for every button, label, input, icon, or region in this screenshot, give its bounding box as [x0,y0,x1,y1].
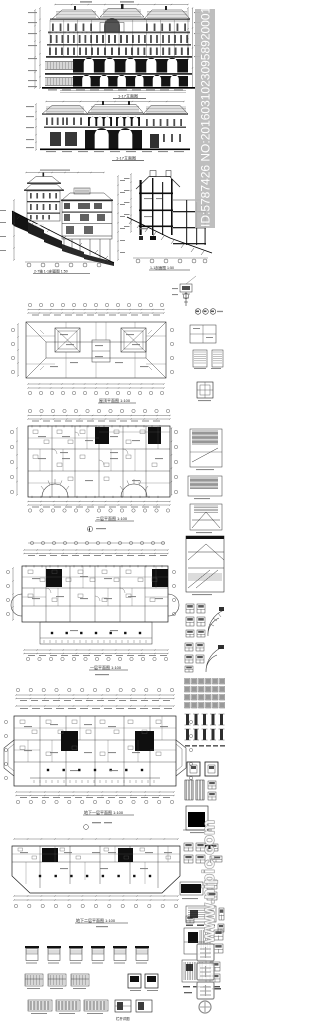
second floor plan: door arcs [52,432,128,465]
stair detail 3 [190,504,222,530]
section 2-2: footing blocks [150,236,156,240]
svg-text:ID:5787426 NO:2016031023095892: ID:5787426 NO:20160310230958920001 [199,6,213,227]
basement-2 plan: dark core right [118,848,133,862]
front elevation: left terrace railing lower [46,78,73,85]
first floor plan: scale mark [95,674,109,675]
molding details cluster B [185,643,193,651]
second floor plan: stair core right (dark) [148,427,161,444]
section 2-2 view: left dimension column [130,174,132,232]
detail row 3: railing strips [28,1000,52,1011]
svg-text:屋顶平面图 1:100: 屋顶平面图 1:100 [99,397,131,403]
front elevation: bottom dimension texts [48,89,57,90]
basement-2 plan: bottom dimension rows [14,895,178,897]
svg-text:1-17立面图: 1-17立面图 [116,155,136,161]
dome arc detail A [208,610,224,636]
front elevation: left dimension column [39,8,41,88]
second floor plan view: top grid bubbles [28,409,31,412]
roof plan: bottom grid bubbles [28,391,31,394]
second floor plan: interior walls [28,426,170,497]
two square details [187,762,200,776]
first floor plan: room annotation blobs [32,578,40,579]
second floor plan: stair core left (dark) [95,427,109,444]
first floor plan: terrace colonnade [40,622,152,644]
section 2-2: bottom grid bubbles [133,257,208,259]
basement-1 plan: bottom grid bubbles [16,800,19,803]
roof plan: left grid bubbles [11,328,14,331]
rear elevation: eaves band [42,114,188,115]
first floor plan: small furniture rects [28,570,33,574]
basement-1 plan: left octagonal bay [4,740,14,776]
basement-1 plan: secondary wall lines [14,716,176,762]
svg-text:1-1剖面图 1:50: 1-1剖面图 1:50 [150,265,174,270]
section 2-2: cut walls [140,180,142,235]
section 1-1: slope hatch label [34,224,44,225]
first floor plan: bottom grid bubbles [26,657,29,660]
tiny glyph rows (right column) [185,679,190,684]
basement-1 plan: outer walls [14,716,176,786]
detail label circles 1 2 3 [195,309,201,315]
section 1-1: right building body [62,201,112,239]
front elevation: third window row [49,48,51,56]
basement-1 plan: interior walls [14,716,176,786]
front elevation: floor band 3 [46,56,192,58]
first floor plan: bottom dimension rows [24,649,168,651]
roof plan: hip and ridge lines [26,322,166,378]
basement-1 plan: room blobs [24,726,32,727]
stair section detail (large, right column) [186,536,224,592]
svg-text:2-7轴 1-1剖面图 1:50: 2-7轴 1-1剖面图 1:50 [34,269,68,274]
rear elevation: roofs [42,106,88,115]
dark window detail [186,806,208,830]
front elevation view: top dimension line [55,4,188,6]
watermark: nipic chinese logo glyphs [197,944,214,961]
second floor plan: outer walls [28,426,170,497]
bottom-right details cluster 3 [186,906,216,922]
roof plan: annotation blobs [60,334,68,335]
detail row 2: railing fragments [25,974,43,986]
basement-1 plan: bottom dimension rows [16,791,174,793]
roof plan view: top grid bubbles [28,303,31,306]
grid bubble strip above first floor plan [28,542,165,544]
second floor plan: secondary wall lines [28,426,170,483]
second floor plan: left grid bubbles [10,430,13,433]
section 2-2: floor slabs [139,193,173,195]
first floor plan: interior walls [22,566,168,622]
basement-1 plan view: top grid bubbles [16,688,19,691]
detail row 2: dark square details [128,974,141,988]
basement-2 plan: interior walls [12,846,180,888]
section 1-1: right dimension column [117,176,119,260]
front elevation: second window row [50,35,52,43]
bottom-right filler glyphs row [186,916,194,923]
svg-text:1-17立面图: 1-17立面图 [118,93,138,99]
roof plan: top dimension rows [28,309,164,311]
roof plan: right roof well [121,328,146,352]
roof plan: valley and extra lines [26,322,166,378]
basement-2 plan: dark core left [42,848,58,862]
ornament leader line [186,276,196,284]
rear elevation: ground line [40,149,190,151]
front elevation: lower arcade (dark) [73,75,188,87]
stair detail 2 [188,476,222,496]
front elevation: roof finial and chimneys [121,4,124,9]
rear elevation: floor band [44,127,186,129]
watermark: nipic round logo [199,1001,211,1013]
second floor plan: room annotation blobs [38,436,46,437]
basement-2 plan: room blobs [20,852,28,853]
section 1-1: foundation stilts [64,239,110,261]
section 1-1: left tower body [27,191,60,221]
second floor plan: right grid bubbles [174,430,177,433]
dome arc detail B [206,647,223,672]
svg-text:二层平面图 1:100: 二层平面图 1:100 [96,515,128,521]
square detail [197,382,213,398]
roof plan: right small plan detail [190,325,216,343]
section 2-2: sloped ground line with hatch [127,217,212,253]
svg-text:地下二层平面图 1:100: 地下二层平面图 1:100 [76,917,116,923]
svg-text:一层平面图 1:100: 一层平面图 1:100 [90,664,122,670]
column detail rows [186,714,189,725]
first floor plan view: top dimension rows [24,549,168,551]
front elevation: ground line [42,87,195,89]
roof plan: center block [92,340,110,362]
front elevation: balcony band [48,32,190,34]
first floor plan: window ticks [26,565,162,567]
svg-text:www.nipic.com: www.nipic.com [199,820,218,944]
rear elevation view: top dimension line [46,101,184,103]
bottom-right details cluster 1 [184,843,193,851]
basement-1 plan: colonnade terrace [47,769,49,771]
basement-1 plan: legend marks [92,822,101,823]
roof plan: left roof well [55,328,80,352]
first floor plan: left grid bubbles [6,570,9,573]
roof plan: bottom dimension rows [28,383,164,385]
front elevation: floor band 2 [47,44,191,46]
bottom-right filler marks [186,925,193,927]
front elevation: right dimension column [187,8,189,60]
bottom-right details cluster 4 [184,928,210,954]
small marks row [185,745,190,747]
section 2-2: room labels [144,198,152,199]
front elevation: underground lines [60,90,186,92]
bottom-right details cluster 5 [182,960,206,982]
basement-2 plan view: top dimension row [14,838,178,840]
front elevation: pilasters [50,20,174,56]
second floor plan: bottom dimension rows [28,501,170,503]
rear elevation: upper windows [46,118,48,126]
first floor plan: stair core left (dark) [46,569,62,587]
stair detail 1 (right column) [190,429,222,467]
molding details cluster A [186,604,194,613]
section 1-1: right building roof [62,193,112,200]
front elevation: floor band 4 [45,73,192,75]
rear elevation: left dimension column [35,104,37,150]
second floor plan: north symbol [87,526,92,531]
section 1-1 view: top dimension row [26,172,104,174]
roof plan: right grid bubbles [170,328,173,331]
first floor plan: secondary wall lines [22,566,168,606]
detail row 3: small blocks [115,1000,131,1012]
watermark: grey ID strip (top right) [195,9,215,228]
front elevation: eaves band [50,19,190,20]
section 2-2: right annex walls and floors [173,199,205,201]
ornament finial detail [180,284,192,292]
first floor plan: door arcs [46,588,125,601]
first floor plan: left bay [11,594,22,616]
basement-1 plan: stair core right (dark) [135,731,154,751]
window detail pair [193,350,207,367]
svg-text:地下一层平面图 1:100: 地下一层平面图 1:100 [84,809,124,815]
first floor plan: right grid bubbles [172,570,175,573]
first floor plan: right bay [168,594,179,616]
front elevation: left terrace railing upper [46,62,73,69]
basement-1 plan: left grid bubbles [4,720,7,723]
section 1-1: sloped ground with dark fill [12,211,28,232]
second floor plan: right round bay [121,484,147,497]
basement-1 plan: right octagonal bay [176,740,186,776]
basement-2 plan: bottom grid bubbles [14,904,17,907]
section 1-1: left tower roof [28,177,60,184]
first floor plan: outer walls [22,566,168,622]
section 1-1: bottom grid bubbles [25,261,105,263]
section 1-1: left dimension ticks [13,200,15,260]
rear elevation: bottom dimension texts [46,151,56,152]
svg-text:栏杆详图: 栏杆详图 [116,1016,130,1021]
basement-1 plan: right grid bubbles [189,720,192,723]
second floor plan: window ticks on walls [32,425,160,427]
second floor plan: bottom grid bubbles [28,509,31,512]
rear elevation: lower level dark mass with arches [85,128,142,148]
basement-2 plan: outer walls [12,846,180,893]
section 2-2: roof outline [136,177,180,190]
striped column details [185,780,193,800]
detail row 1: small elevation fragments [25,946,39,948]
second floor plan: small furniture rects [33,430,38,434]
basement-2 plan: secondary lines [12,846,180,884]
bottom-right details cluster 2: dark bar [181,884,201,893]
front elevation: upper arch arcade (dark) [73,58,188,73]
first floor plan: stair core right (dark) [152,569,168,587]
second floor plan: left round bay [42,484,68,497]
basement-1 plan: small furniture rects [20,720,25,724]
basement-2 plan: colonnade [39,875,41,877]
front elevation: roofs [52,10,100,19]
front elevation: upper window row [52,24,54,32]
basement-1 plan: stair core left (dark) [61,731,78,751]
basement-1 plan: top dimension rows [16,694,174,696]
second floor plan: top dimension rows [28,415,170,417]
left margin tiny dim text for sections [0,210,6,211]
roof plan: outer outline [26,322,166,378]
